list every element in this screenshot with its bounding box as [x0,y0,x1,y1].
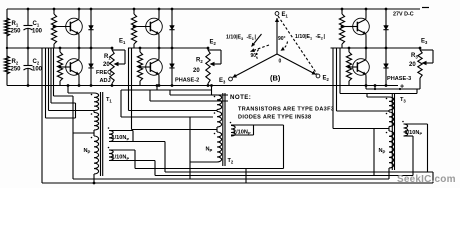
resistor bias upper (right channel) [341,9,343,14]
wire T1 left bracket inner [75,103,77,118]
svg-text:100: 100 [32,29,43,35]
resistor R1 250 [4,18,9,36]
transformer T1 secondary winding 2 (1/10Np) [109,150,113,161]
transistor Q upper (right) [341,25,344,28]
wire mid node right channel [331,47,421,49]
resistor bias lower (left channel) [59,48,61,52]
wire to T2 A-B tap [128,48,130,111]
svg-text:250: 250 [11,29,22,35]
transformer T2 secondary winding (1/10Np) [231,126,235,137]
wire T1 sec2 bottom drop [154,161,156,176]
wire T1 primary bottom lead [93,174,95,183]
svg-text:20: 20 [193,68,200,74]
transformer T3 secondary winding (1/10Np) [404,124,408,136]
svg-text:E1: E1 [282,12,289,18]
resistor bias upper (middle channel) [133,9,135,14]
svg-text:SeekIC.com: SeekIC.com [397,174,456,185]
svg-text:NP: NP [379,148,386,154]
svg-text:R2: R2 [12,59,19,65]
potentiometer R2 20 PHASE-2 [207,47,210,50]
svg-text:0: 0 [279,59,282,65]
wire horizontal bus y=179 [73,178,389,180]
wire bus cluster left vertical 4 [50,48,52,103]
wire riser x=157 [156,84,159,87]
transistor Q upper (middle) [133,25,136,28]
svg-text:90°: 90° [278,36,286,42]
potentiometer R3 20 PHASE-3 [419,47,422,50]
phasor 90 degree arc right [281,42,288,51]
phasor label callout arrow [252,34,262,47]
phasor dashed vector 1/10(E3-E1) [251,45,270,52]
svg-text:T1: T1 [106,97,112,103]
wire T1 top lead from bottom rail [67,84,70,87]
wire left rail [6,9,8,86]
wire T1 left bracket outer (to T1 B-C tap) [72,96,74,179]
svg-text:PHASE-2: PHASE-2 [175,78,199,84]
wire horizontal bus y=175.5 [155,175,413,177]
wire T1 sec1 bottom drop [164,142,166,173]
wire riser x=211.5 to T2 top [210,84,213,87]
svg-text:PHASE-3: PHASE-3 [387,76,411,82]
svg-text:(B): (B) [270,74,281,83]
diode lower (left) [90,48,92,64]
svg-text:27V D-C: 27V D-C [393,12,414,18]
wire branch y=117 [120,90,122,117]
wire T2 secondary top drop [283,125,285,169]
svg-text:250: 250 [11,67,22,73]
wire branch y=95 [169,90,171,95]
transformer T1 core [100,92,102,176]
wire top supply bus (27V D-C negative rail) [7,8,420,10]
transformer T1 secondary winding 1 (1/10Np) [109,131,113,142]
negative terminal mark [422,7,429,9]
resistor bias upper (left channel) [53,9,55,14]
wire T3 Np box left edge [373,129,375,176]
polarity dot T3 primary [386,98,388,100]
svg-text:ADJ: ADJ [100,78,111,84]
svg-text:E2: E2 [210,40,217,46]
potentiometer R1 20 FREQ ADJ [111,47,114,50]
svg-text:T3: T3 [400,97,406,103]
diode lower (middle) [171,48,173,64]
transistor Q lower (left) [59,66,62,69]
diode upper (middle) [171,9,173,26]
svg-text:1/10NP: 1/10NP [112,155,130,161]
wire bus cluster left vertical 1 (to bottom bus) [41,48,43,183]
svg-text:T2: T2 [228,158,234,164]
wire horizontal bus y=168.5 [135,168,284,170]
svg-text:1/10|E3: 1/10|E3 [226,35,243,41]
wire bus cluster left vertical 2 [45,48,47,118]
svg-text:NP: NP [206,147,213,153]
svg-text:1/10NP: 1/10NP [405,130,423,136]
phasor diagram vector E2 [277,54,316,75]
wire link bottom bus right end [432,172,434,183]
wire lower horizontal bus y=90 middle [121,89,212,91]
phasor dashed line E1 to E2 [278,16,317,74]
wire right cluster to T3 B-C tap [332,48,334,129]
wire T3 secondary bottom drop [412,136,414,176]
wire bus cluster left vertical 5 [53,48,55,96]
svg-text:NP: NP [84,148,91,154]
svg-text:R3: R3 [411,53,418,59]
wire T2 bottom lead and Np box [190,161,217,163]
wire mid node left channel [7,47,112,49]
transistor Q upper (left) [53,25,56,28]
transformer T2 primary winding sections [217,95,222,110]
transistor Q lower (middle) [139,66,142,69]
transformer T3 core [391,93,393,170]
svg-text:20: 20 [409,62,416,68]
diode upper (left) [90,9,92,26]
wire to T2 B-C tap [131,48,133,130]
svg-text:FREQ: FREQ [96,70,112,76]
svg-text:1/10|E1: 1/10|E1 [295,34,312,40]
svg-text:E3: E3 [219,78,226,84]
svg-text:E3: E3 [421,39,428,45]
svg-text:C2: C2 [33,59,40,65]
transistor Q lower (right) [348,66,351,69]
polarity dot T2 primary [214,96,216,98]
phasor small arc lower [256,50,258,60]
svg-text:20: 20 [103,62,110,68]
svg-text:R1: R1 [104,54,111,60]
capacitor C1 100 [27,8,30,11]
wire bottom supply bus (positive rail) [7,85,398,87]
capacitor C2 100 [27,48,29,66]
wire horizontal bus y=172 [165,171,433,173]
svg-text:E2: E2 [323,76,330,82]
diode lower (right) [385,48,387,64]
transformer T1 primary winding sections [94,93,99,111]
svg-text:100: 100 [32,67,43,73]
wire mid node middle channel [128,47,208,49]
wire right cluster to T3 A-B tap [336,48,338,111]
svg-text:DIODES ARE TYPE IN538: DIODES ARE TYPE IN538 [238,115,311,121]
phasor diagram vector E1 [276,18,278,54]
svg-text:E1: E1 [119,39,126,45]
wire pot3 bottom routing [374,86,376,90]
wire T1 sec2 top lead drop (box right edge) [134,150,136,169]
resistor R2 250 [4,56,9,74]
wire T3 primary bottom lead [388,168,390,179]
wire right cluster to T3 top [339,48,341,94]
svg-text:NOTE:: NOTE: [230,94,251,101]
transformer T3 primary winding sections [389,97,394,110]
wire branch y=101 [149,90,151,101]
diode upper (right) [385,9,387,26]
wire link x=246 down to bottom bus [245,169,247,184]
wire horizontal bus y=183 (bottom) [42,182,433,184]
phasor diagram vector E3 [233,54,278,78]
transformer T2 core [222,93,224,166]
wire bus cluster left vertical 3 (to T1 A-B tap) [48,48,50,111]
svg-text:R2: R2 [196,58,203,64]
svg-text:R1: R1 [12,21,19,27]
svg-text:1/10NP: 1/10NP [233,129,251,135]
svg-text:C1: C1 [33,21,40,27]
svg-text:TRANSISTORS ARE TYPE DA3F3: TRANSISTORS ARE TYPE DA3F3 [238,107,334,113]
polarity dot T1 primary [91,94,93,96]
resistor bias lower (middle channel) [139,48,141,52]
svg-text:1/10NP: 1/10NP [112,135,130,141]
resistor bias lower (right channel) [348,48,350,52]
wire T3 secondary top drop [427,124,429,172]
